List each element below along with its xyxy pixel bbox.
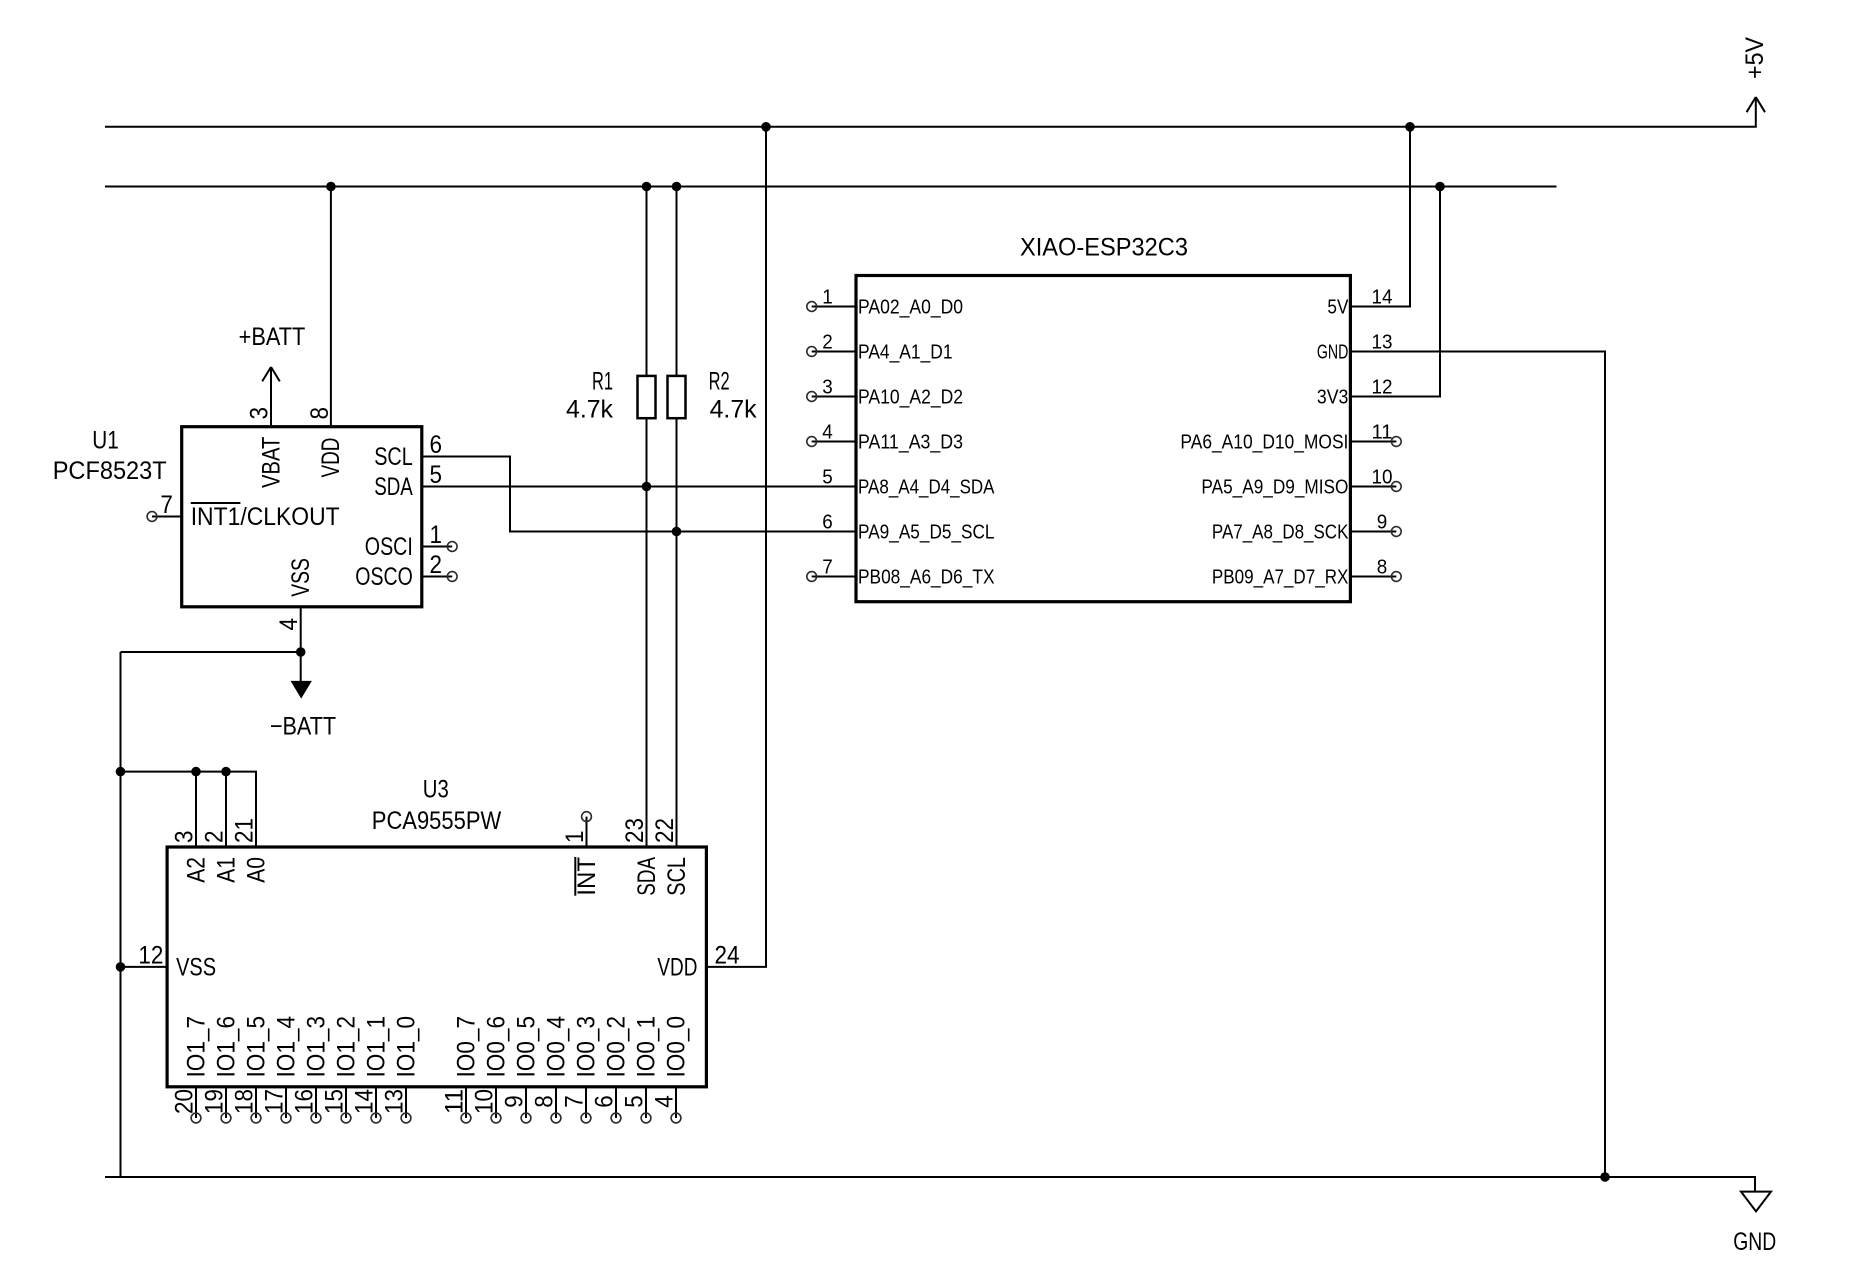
ESP32 pin 14 5V: [1327, 287, 1392, 319]
module XIAO-ESP32C3 body: [856, 276, 1350, 602]
U3 pin 21 A0: [231, 818, 271, 883]
svg-text:IO1_7: IO1_7: [183, 1016, 211, 1078]
junction addr row / A1: [221, 767, 231, 777]
junction +5V rail / ESP 5V: [1405, 122, 1415, 132]
U3 pin 11 IO0_7: [441, 1016, 481, 1123]
svg-text:11: 11: [441, 1089, 469, 1114]
svg-text:XIAO-ESP32C3: XIAO-ESP32C3: [1020, 233, 1188, 261]
ESP32 pin 9 PA7_A8_D8_SCK: [1212, 512, 1401, 544]
wire left vertical (battery minus net): [120, 652, 122, 1177]
svg-text:3V3: 3V3: [1317, 386, 1349, 408]
svg-text:6: 6: [591, 1095, 619, 1108]
svg-text:2: 2: [201, 831, 229, 844]
svg-text:VDD: VDD: [317, 438, 345, 478]
svg-text:IO1_4: IO1_4: [273, 1016, 301, 1078]
ESP32 pin 2 PA4_A1_D1: [807, 332, 953, 364]
svg-text:GND: GND: [1733, 1228, 1776, 1256]
resistor R1 4.7k: [566, 368, 656, 424]
svg-text:8: 8: [531, 1095, 559, 1108]
junction SCL / R2: [672, 527, 682, 537]
U3 pin 12 VSS: [138, 941, 216, 981]
junction +5V rail / U3 VDD: [761, 122, 771, 132]
svg-text:2: 2: [822, 332, 833, 354]
wire R2 to SCL net / U3 SCL: [676, 418, 678, 847]
label PCA9555PW: [372, 807, 502, 835]
svg-text:IO1_6: IO1_6: [213, 1016, 241, 1078]
svg-text:4.7k: 4.7k: [566, 396, 613, 424]
svg-text:PA9_A5_D5_SCL: PA9_A5_D5_SCL: [858, 521, 995, 543]
wire 3V3 rail to R1: [646, 187, 648, 376]
U3 pin 10 IO0_6: [471, 1016, 511, 1123]
wire left vertical to U3 VSS: [121, 966, 168, 968]
svg-text:PB09_A7_D7_RX: PB09_A7_D7_RX: [1212, 566, 1349, 588]
U3 pin 19 IO1_6: [201, 1016, 241, 1123]
svg-text:VSS: VSS: [176, 954, 216, 982]
svg-text:OSCO: OSCO: [355, 563, 413, 591]
svg-text:5: 5: [621, 1095, 649, 1108]
svg-text:GND: GND: [1317, 341, 1349, 363]
power +5V: [1741, 37, 1769, 112]
U1 pin 3 VBAT: [246, 407, 286, 488]
svg-text:1: 1: [430, 521, 443, 549]
svg-text:IO1_0: IO1_0: [393, 1016, 421, 1078]
wire 3V3 rail to U1 VDD: [330, 187, 332, 427]
svg-text:7: 7: [561, 1095, 589, 1108]
svg-text:IO1_1: IO1_1: [363, 1016, 391, 1078]
wire 3V3 rail to R2: [676, 187, 678, 376]
svg-text:7: 7: [822, 557, 833, 579]
wire A2 A1 A0 to battery minus net: [121, 772, 257, 847]
svg-text:7: 7: [160, 491, 173, 519]
svg-text:IO0_3: IO0_3: [573, 1016, 601, 1078]
U1 pin 6 SCL: [374, 431, 442, 471]
svg-text:4: 4: [275, 618, 303, 631]
ESP32 pin 12 3V3: [1317, 377, 1393, 409]
svg-text:OSCI: OSCI: [365, 533, 413, 561]
IC U3 PCA9555PW body: [167, 847, 706, 1087]
label U1: [92, 427, 119, 455]
U1 pin 2 OSCO: [355, 551, 457, 591]
svg-text:5: 5: [822, 467, 833, 489]
U3 pin 8 IO0_4: [531, 1016, 571, 1123]
svg-text:−BATT: −BATT: [270, 713, 336, 741]
svg-text:19: 19: [201, 1089, 229, 1114]
svg-text:4.7k: 4.7k: [710, 396, 757, 424]
svg-text:SCL: SCL: [374, 443, 413, 471]
svg-text:5V: 5V: [1327, 296, 1349, 318]
U3 pin 22 SCL: [651, 818, 691, 896]
svg-text:9: 9: [501, 1095, 529, 1108]
label U3: [423, 776, 449, 804]
ESP32 pin 6 PA9_A5_D5_SCL: [822, 512, 994, 544]
ground GND: [1733, 1192, 1776, 1256]
svg-text:IO0_2: IO0_2: [603, 1016, 631, 1078]
IC U1 PCF8523T body: [182, 427, 422, 607]
resistor R2 4.7k: [668, 368, 758, 424]
svg-text:A2: A2: [183, 857, 211, 883]
svg-text:PB08_A6_D6_TX: PB08_A6_D6_TX: [858, 566, 995, 588]
U3 pin 14 IO1_1: [351, 1016, 391, 1123]
U3 pin 17 IO1_4: [261, 1016, 301, 1123]
svg-text:PA8_A4_D4_SDA: PA8_A4_D4_SDA: [858, 476, 995, 498]
svg-text:1: 1: [822, 287, 833, 309]
svg-text:VBAT: VBAT: [258, 437, 286, 488]
svg-text:INT1/CLKOUT: INT1/CLKOUT: [191, 503, 340, 531]
svg-text:U1: U1: [92, 427, 119, 455]
junction addr row / A2: [191, 767, 201, 777]
junction 3V3 rail / R2: [672, 182, 682, 192]
wire VBAT pin to +BATT: [270, 367, 272, 427]
svg-text:3: 3: [822, 377, 833, 399]
wire U1 VSS down to -BATT node: [300, 607, 302, 652]
svg-text:PCA9555PW: PCA9555PW: [372, 807, 502, 835]
junction left vertical / VSS: [116, 962, 126, 972]
svg-text:PCF8523T: PCF8523T: [53, 457, 167, 485]
svg-text:10: 10: [471, 1089, 499, 1114]
svg-text:PA7_A8_D8_SCK: PA7_A8_D8_SCK: [1212, 521, 1349, 543]
svg-text:IO0_7: IO0_7: [453, 1016, 481, 1078]
label PCF8523T: [53, 457, 167, 485]
U3 pin 2 A1: [201, 831, 241, 883]
U3 pin 15 IO1_2: [321, 1016, 361, 1123]
svg-text:22: 22: [651, 818, 679, 843]
power +BATT: [239, 323, 306, 381]
svg-text:SCL: SCL: [663, 857, 691, 896]
junction 3V3 rail / U1 VDD: [326, 182, 336, 192]
svg-text:PA4_A1_D1: PA4_A1_D1: [858, 341, 953, 363]
svg-text:PA02_A0_D0: PA02_A0_D0: [858, 296, 963, 318]
svg-text:R2: R2: [709, 368, 730, 396]
U3 pin 7 IO0_3: [561, 1016, 601, 1123]
U3 pin 24 VDD: [657, 941, 739, 981]
U3 pin 18 IO1_5: [231, 1016, 271, 1123]
svg-text:4: 4: [651, 1095, 679, 1108]
U3 pin 13 IO1_0: [381, 1016, 421, 1123]
svg-text:9: 9: [1377, 512, 1388, 534]
svg-text:IO0_4: IO0_4: [543, 1016, 571, 1078]
junction addr row / left vertical: [116, 767, 126, 777]
svg-text:6: 6: [430, 431, 443, 459]
junction GND rail / ESP GND: [1600, 1172, 1610, 1182]
svg-text:1: 1: [561, 831, 589, 844]
U3 pin 6 IO0_2: [591, 1016, 631, 1123]
U3 pin 16 IO1_3: [291, 1016, 331, 1123]
svg-text:17: 17: [261, 1089, 289, 1114]
junction 3V3 rail / R1: [642, 182, 652, 192]
ESP32 pin 11 PA6_A10_D10_MOSI: [1180, 422, 1401, 454]
svg-text:6: 6: [822, 512, 833, 534]
svg-text:IO1_3: IO1_3: [303, 1016, 331, 1078]
svg-text:+BATT: +BATT: [239, 323, 306, 351]
wire SCL net U1 to ESP: [422, 457, 856, 532]
wire ESP 5V pin to +5V rail: [1350, 127, 1410, 307]
svg-text:U3: U3: [423, 776, 449, 804]
ESP32 pin 10 PA5_A9_D9_MISO: [1201, 467, 1401, 499]
U3 pin 4 IO0_0: [651, 1016, 691, 1123]
ESP32 pin 8 PB09_A7_D7_RX: [1212, 557, 1401, 589]
svg-text:IO0_5: IO0_5: [513, 1016, 541, 1078]
junction 3V3 rail / ESP 3V3: [1435, 182, 1445, 192]
svg-text:IO1_2: IO1_2: [333, 1016, 361, 1078]
svg-text:IO0_1: IO0_1: [633, 1016, 661, 1078]
svg-text:IO0_0: IO0_0: [663, 1016, 691, 1078]
ESP32 pin 3 PA10_A2_D2: [807, 377, 963, 409]
wire ESP 3V3 pin to 3V3 rail: [1350, 187, 1440, 397]
label XIAO-ESP32C3: [1020, 233, 1188, 261]
svg-text:11: 11: [1372, 422, 1393, 444]
svg-text:12: 12: [1372, 377, 1393, 399]
wire -BATT node to left vertical: [121, 651, 301, 653]
svg-text:PA5_A9_D9_MISO: PA5_A9_D9_MISO: [1201, 476, 1348, 498]
svg-text:VDD: VDD: [657, 954, 697, 982]
svg-text:4: 4: [822, 422, 833, 444]
svg-text:15: 15: [321, 1089, 349, 1114]
svg-text:23: 23: [621, 818, 649, 843]
U3 pin 1 INT: [561, 812, 601, 896]
svg-text:13: 13: [1372, 332, 1393, 354]
svg-text:2: 2: [430, 551, 443, 579]
U3 pin 20 IO1_7: [171, 1016, 211, 1123]
svg-text:14: 14: [351, 1089, 379, 1114]
svg-text:20: 20: [171, 1089, 199, 1114]
svg-text:3: 3: [246, 407, 274, 420]
ESP32 pin 7 PB08_A6_D6_TX: [807, 557, 995, 589]
svg-text:13: 13: [381, 1089, 409, 1114]
wire 3V3 rail: [105, 186, 1557, 188]
ESP32 pin 13 GND: [1317, 332, 1393, 364]
wire SDA net U1 to ESP: [422, 486, 856, 488]
svg-text:PA6_A10_D10_MOSI: PA6_A10_D10_MOSI: [1180, 431, 1348, 453]
wire U3 VDD to +5V rail: [706, 127, 766, 967]
U1 pin 5 SDA: [374, 461, 442, 501]
U3 pin 9 IO0_5: [501, 1016, 541, 1123]
svg-text:21: 21: [231, 818, 259, 843]
U1 pin 1 OSCI: [365, 521, 457, 561]
svg-text:+5V: +5V: [1741, 37, 1769, 79]
junction SDA / R1: [642, 482, 652, 492]
svg-text:PA10_A2_D2: PA10_A2_D2: [858, 386, 963, 408]
wire GND bottom rail: [105, 1177, 1755, 1191]
svg-text:8: 8: [1377, 557, 1388, 579]
svg-text:SDA: SDA: [633, 857, 661, 896]
svg-text:A0: A0: [243, 857, 271, 883]
svg-text:5: 5: [430, 461, 443, 489]
svg-text:INT: INT: [573, 857, 601, 896]
svg-text:R1: R1: [592, 368, 613, 396]
power -BATT: [270, 652, 336, 741]
U3 pin 5 IO0_1: [621, 1016, 661, 1123]
wire +5V top rail: [105, 97, 1756, 127]
U1 pin 8 VDD: [306, 407, 345, 478]
U1 pin 7 INT1/CLKOUT: [147, 491, 340, 531]
svg-text:24: 24: [715, 941, 740, 969]
ESP32 pin 4 PA11_A3_D3: [807, 422, 963, 454]
U3 pin 23 SDA: [621, 818, 661, 896]
svg-text:VSS: VSS: [287, 558, 315, 597]
svg-text:18: 18: [231, 1089, 259, 1114]
svg-text:SDA: SDA: [374, 473, 413, 501]
U3 pin 3 A2: [171, 831, 211, 883]
svg-text:12: 12: [138, 941, 163, 969]
ESP32 pin 5 PA8_A4_D4_SDA: [822, 467, 995, 499]
svg-text:3: 3: [171, 831, 199, 844]
U1 pin 4 VSS: [275, 558, 315, 630]
wire ESP GND pin to GND rail: [1350, 352, 1605, 1178]
svg-text:A1: A1: [213, 857, 241, 883]
wire R1 to SDA net / U3 SDA: [646, 418, 648, 847]
junction -BATT node: [296, 647, 306, 657]
svg-text:IO1_5: IO1_5: [243, 1016, 271, 1078]
svg-text:10: 10: [1372, 467, 1393, 489]
svg-text:14: 14: [1372, 287, 1393, 309]
svg-text:PA11_A3_D3: PA11_A3_D3: [858, 431, 963, 453]
ESP32 pin 1 PA02_A0_D0: [807, 287, 963, 319]
svg-text:16: 16: [291, 1089, 319, 1114]
svg-text:IO0_6: IO0_6: [483, 1016, 511, 1078]
